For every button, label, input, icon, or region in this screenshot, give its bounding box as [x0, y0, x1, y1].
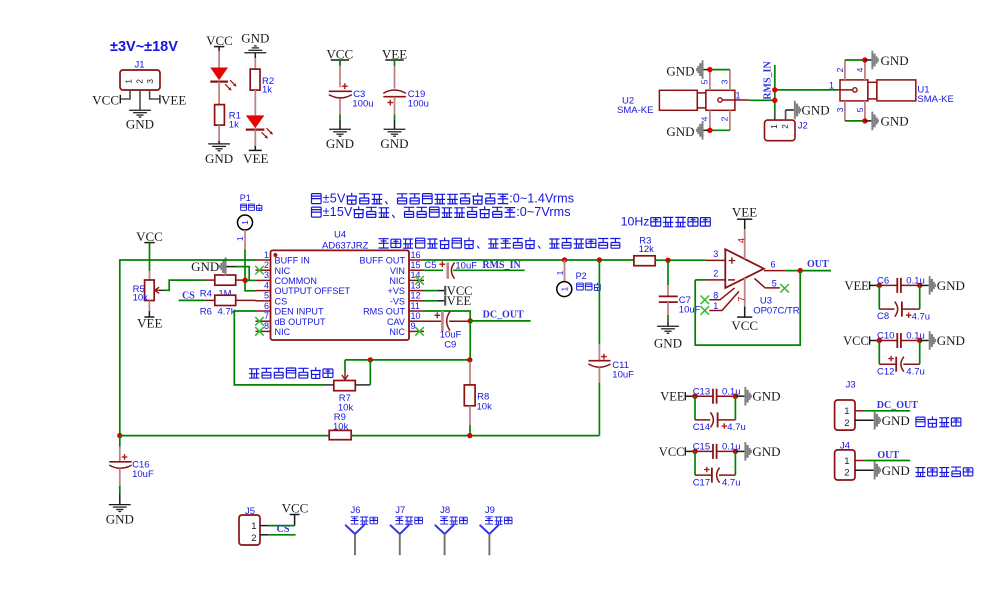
svg-text:4.7u: 4.7u	[722, 477, 741, 488]
U3 pin 5	[755, 279, 780, 289]
label C17 4.7u	[693, 477, 741, 488]
junction U2 top	[707, 67, 712, 72]
svg-text:9: 9	[411, 321, 416, 331]
U4 pin 16 (BUFF OUT)	[360, 250, 424, 266]
svg-text:4.7u: 4.7u	[906, 367, 925, 378]
svg-text:2: 2	[251, 533, 256, 544]
LED D1	[210, 68, 236, 91]
wire output to OUT	[785, 270, 831, 272]
wire C6/C8 right down	[919, 285, 921, 309]
svg-text:NIC: NIC	[389, 327, 405, 337]
svg-text:GND: GND	[937, 278, 965, 293]
svg-text:2: 2	[781, 124, 790, 129]
svg-text:1k: 1k	[229, 119, 239, 130]
svg-text:RMS_IN: RMS_IN	[763, 61, 774, 100]
junction rail / R8	[467, 433, 472, 438]
svg-text:SMA-KE: SMA-KE	[917, 94, 953, 105]
wire U1 bottom pins	[845, 120, 865, 122]
wire VCC to R5	[149, 243, 151, 280]
junction RMS_IN / U1	[772, 87, 777, 92]
wire J4 pin1 OUT	[855, 460, 910, 462]
wire pin12 to VEE	[424, 300, 445, 302]
svg-text:GND: GND	[241, 31, 269, 46]
power port VEE (C13/C14)	[660, 390, 685, 404]
svg-text:C9: C9	[444, 339, 456, 350]
U4 pin 4 (OUTPUT OFFSET)	[256, 280, 351, 296]
wire pin6 to R7	[234, 311, 323, 385]
label C13 0.1u	[693, 386, 741, 397]
capacitor C11	[589, 361, 611, 368]
U4 pin 13 (+VS)	[388, 280, 424, 296]
net label DC_OUT (U4)	[483, 310, 524, 321]
svg-text:2: 2	[720, 116, 730, 121]
wire C3 to GND	[339, 99, 341, 130]
label J2	[798, 120, 808, 131]
wire C11 top	[598, 260, 600, 361]
junction C6/C8 right	[917, 283, 922, 288]
svg-text:10k: 10k	[333, 421, 349, 432]
svg-text:VEE: VEE	[660, 390, 685, 404]
wire pin10 to C9	[424, 320, 441, 322]
label C6 0.1u	[877, 276, 925, 287]
U4 pin 6 (DEN INPUT)	[256, 301, 324, 317]
svg-text:C13: C13	[693, 386, 710, 397]
power port VCC (U4)	[445, 284, 472, 298]
svg-text:CS: CS	[275, 296, 288, 306]
svg-text:3: 3	[264, 270, 269, 280]
annotation filtered out	[916, 467, 973, 477]
svg-text:OUT: OUT	[877, 450, 899, 461]
junction U1 top	[862, 57, 867, 62]
wire J5 pin2 CS	[260, 534, 296, 536]
wire LED1 to R1	[218, 82, 220, 105]
junction RMS_IN / U2	[772, 98, 777, 103]
power port VCC (C3)	[326, 46, 353, 61]
potentiometer R5	[145, 280, 161, 301]
capacitor C19	[383, 90, 406, 97]
no-connect X pin2	[255, 266, 264, 275]
svg-text:VCC: VCC	[282, 501, 309, 516]
wire pin13 to VCC	[424, 290, 445, 292]
junction C6/C8 left	[877, 283, 882, 288]
svg-text:1: 1	[240, 220, 250, 225]
svg-text:R6: R6	[200, 306, 212, 317]
svg-text:1: 1	[844, 406, 849, 417]
svg-text:4.7u: 4.7u	[727, 422, 746, 433]
svg-text:GND: GND	[205, 151, 233, 166]
svg-text:1: 1	[713, 301, 718, 311]
connector J3	[835, 400, 855, 430]
wire J1 pin3 to VEE	[150, 90, 160, 99]
svg-text:C14: C14	[693, 422, 710, 433]
capacitor C16 plus	[122, 454, 128, 460]
net label RMS_IN (SMA)	[763, 61, 774, 100]
U3 pin 2	[706, 268, 726, 280]
ground (U2 bottom)	[666, 121, 708, 140]
pin 2 of U1	[835, 60, 845, 80]
capacitor C10	[879, 333, 919, 348]
capacitor C16	[109, 462, 131, 469]
net RMS_IN vertical wire	[774, 65, 776, 110]
svg-text:GND: GND	[654, 335, 682, 350]
wire J4 pin2 gnd	[855, 469, 874, 471]
ground (R2 top)	[241, 31, 269, 59]
potentiometer R7	[324, 372, 371, 391]
U3 pin 1	[709, 291, 739, 311]
svg-text:VEE: VEE	[137, 316, 162, 331]
label C15 0.1u	[693, 442, 741, 453]
connector J1 label	[135, 60, 145, 71]
svg-text:J7: J7	[395, 505, 405, 516]
pin 1 of J2	[770, 124, 779, 129]
svg-text:6: 6	[264, 301, 269, 311]
net label CS (J5)	[277, 524, 290, 535]
power port VEE (J1)	[160, 93, 186, 108]
power port VEE (U4)	[445, 294, 471, 308]
power port VEE (LED2)	[243, 150, 268, 165]
svg-text:1: 1	[829, 81, 834, 91]
svg-text:P2: P2	[576, 271, 587, 281]
svg-text:1: 1	[251, 521, 256, 532]
wire U1 top pins	[845, 59, 865, 61]
label C8 4.7u	[877, 311, 930, 322]
svg-text:J8: J8	[440, 505, 450, 516]
svg-text:1: 1	[235, 236, 245, 241]
svg-text:RMS OUT: RMS OUT	[363, 307, 405, 317]
label U3	[760, 296, 772, 307]
pin 1 of U1	[829, 81, 857, 93]
wire C16 top	[119, 436, 121, 462]
wire C7 to GND	[667, 302, 669, 326]
svg-text:C8: C8	[877, 311, 889, 322]
ground (J4)	[874, 461, 910, 480]
label J9	[485, 505, 495, 516]
svg-text:VEE: VEE	[161, 93, 186, 108]
net label DC_OUT (J3)	[877, 400, 918, 411]
svg-text:10uF: 10uF	[612, 369, 634, 380]
svg-text:6: 6	[771, 259, 776, 269]
wire BUFF OUT	[424, 259, 634, 261]
svg-text:4.7u: 4.7u	[912, 311, 931, 322]
pin 2 of J1	[135, 79, 144, 84]
wire C10/C12 left down	[878, 341, 880, 365]
wire R7 right up	[369, 360, 371, 385]
LED D2	[246, 115, 273, 138]
wire R8 top lead	[469, 360, 471, 385]
svg-text:VCC: VCC	[326, 46, 353, 61]
pin 2 of J5	[251, 533, 256, 544]
svg-text:8: 8	[713, 290, 718, 300]
power port VCC (J1)	[92, 93, 120, 108]
test point P1	[238, 215, 253, 230]
ground (C15/C17)	[735, 442, 780, 461]
ground (C10/C12)	[920, 331, 965, 350]
svg-text:J3: J3	[846, 380, 856, 391]
svg-text:1: 1	[736, 91, 741, 101]
net label CS (R6)	[182, 290, 195, 301]
wire DC_OUT	[470, 320, 531, 322]
junction C7	[665, 258, 670, 263]
svg-text:GND: GND	[752, 444, 780, 459]
svg-text:10Hz: 10Hz	[621, 215, 650, 229]
capacitor C7	[659, 296, 678, 302]
svg-text:VEE: VEE	[844, 279, 869, 293]
svg-text:2: 2	[844, 418, 849, 429]
svg-text:J2: J2	[798, 120, 808, 131]
svg-text:2: 2	[844, 468, 849, 479]
svg-text:AD637JRZ: AD637JRZ	[322, 241, 369, 252]
wire C19 to GND	[394, 97, 396, 129]
wire J3 pin2 gnd	[855, 419, 874, 421]
test point P2	[557, 282, 572, 297]
label OP07C/TR	[753, 306, 800, 317]
label P2 cjk	[577, 283, 601, 291]
wire VEE to C19	[394, 60, 396, 89]
svg-text:1: 1	[844, 456, 849, 467]
net label RMS_IN (C5)	[482, 260, 521, 271]
svg-text:1: 1	[770, 124, 779, 129]
svg-text:OUTPUT OFFSET: OUTPUT OFFSET	[275, 286, 351, 296]
wire R7 top	[345, 359, 470, 361]
ground (C16)	[106, 505, 134, 527]
junction C13/C14 left	[692, 394, 697, 399]
svg-text:VCC: VCC	[731, 318, 758, 333]
svg-text:12k: 12k	[639, 244, 655, 255]
power port VEE (C6/C8)	[844, 279, 869, 293]
wire GND to pin3	[227, 267, 250, 281]
label C5	[424, 260, 436, 271]
svg-text:GND: GND	[666, 124, 694, 139]
label C5 10uF	[455, 261, 477, 272]
wire VCC to C15	[685, 450, 695, 452]
capacitor C11 plus	[601, 354, 607, 360]
label C16 10uF	[132, 460, 154, 480]
no-connect X pin9	[415, 327, 424, 336]
wire J1 pin1 to VCC	[121, 90, 130, 99]
power port VCC (LED1)	[206, 33, 233, 48]
svg-text::0~1.4Vrms: :0~1.4Vrms	[509, 192, 574, 206]
wire R1 to GND	[218, 125, 220, 144]
svg-text:VCC: VCC	[843, 334, 869, 348]
U4 pin 8 (NIC)	[256, 321, 291, 337]
wire BUFF IN bus	[120, 260, 256, 436]
annotation trim pot	[249, 367, 333, 378]
resistor R1	[215, 105, 225, 126]
svg-text:NIC: NIC	[275, 266, 291, 276]
wire R7 wiper up	[344, 360, 346, 372]
label C7 10uF	[679, 295, 701, 315]
wire LED2 to VEE	[254, 130, 256, 151]
U3 pin 4 VEE	[732, 205, 757, 259]
svg-text:2: 2	[835, 67, 845, 72]
feedback wire U3	[695, 271, 800, 346]
junction R7 right	[368, 357, 373, 362]
op-amp U3	[725, 249, 764, 288]
svg-text:C5: C5	[424, 260, 436, 271]
U4 pin 2 (NIC)	[256, 260, 291, 276]
power port VEE (C19)	[382, 46, 407, 61]
wire C11 bottom	[598, 368, 600, 436]
svg-text:10uF: 10uF	[132, 469, 154, 480]
wire pin11 elbow	[424, 311, 470, 321]
capacitor C3 plus	[342, 83, 348, 89]
svg-text:10uF: 10uF	[679, 304, 701, 315]
label C3 100u	[352, 89, 373, 109]
pin 4 of U1	[855, 60, 865, 80]
U4 pin 14 (NIC)	[389, 270, 424, 286]
svg-text:1: 1	[555, 270, 565, 275]
net label OUT (J4)	[877, 450, 899, 461]
svg-text:J9: J9	[485, 505, 495, 516]
pin 1 of J1	[124, 79, 133, 84]
wire P1 lead	[235, 230, 245, 249]
junction R4/P1	[243, 278, 248, 283]
svg-text:CS: CS	[277, 524, 290, 535]
wire VCC to C10	[870, 340, 880, 342]
capacitor C5 plus	[439, 261, 445, 267]
svg-text:2: 2	[135, 79, 144, 84]
label J7 cjk	[395, 517, 422, 525]
resistor R4	[205, 275, 245, 285]
svg-text:GND: GND	[326, 136, 354, 151]
svg-text:100u: 100u	[408, 98, 429, 109]
wire R3 to opamp	[655, 259, 705, 261]
svg-text:2: 2	[713, 268, 718, 278]
no-connect X U3 pin8	[701, 296, 710, 305]
label R8 10k	[477, 392, 493, 413]
capacitor C19 plus	[387, 100, 393, 106]
wire C7 top	[667, 260, 669, 296]
svg-text:GND: GND	[380, 136, 408, 151]
svg-text:3: 3	[835, 107, 845, 112]
label U2 SMA-KE	[617, 96, 653, 117]
svg-text:OUT: OUT	[807, 259, 829, 270]
svg-text:dB OUTPUT: dB OUTPUT	[275, 317, 326, 327]
ground (U2 top)	[666, 60, 708, 79]
ground (J3)	[874, 411, 910, 430]
capacitor C17	[695, 468, 735, 483]
svg-text:7: 7	[264, 311, 269, 321]
pin 3 of U1	[835, 101, 845, 121]
mounting hole J9	[480, 525, 499, 555]
resistor R9	[329, 430, 351, 439]
U4 pin 3 (COMMON)	[256, 270, 317, 286]
svg-text:3: 3	[713, 249, 718, 259]
junction C11	[597, 257, 602, 262]
label R1 1k	[229, 111, 241, 131]
svg-text:5: 5	[855, 107, 865, 112]
pin 1 of J5	[251, 521, 256, 532]
svg-text:C15: C15	[693, 442, 710, 453]
ground (J2)	[794, 101, 830, 120]
capacitor C12	[879, 357, 919, 372]
svg-text:4: 4	[736, 238, 746, 243]
label J4	[840, 441, 850, 452]
svg-text:3: 3	[720, 79, 730, 84]
wire VCC to C3	[339, 60, 341, 87]
wire C10/C12 right down	[919, 341, 921, 365]
svg-text:10k: 10k	[133, 293, 149, 304]
junction DC_OUT	[468, 318, 473, 323]
connector J4	[835, 450, 855, 480]
svg-text:2: 2	[264, 260, 269, 270]
power port VCC (C15/C17)	[659, 445, 686, 459]
label C10 0.1u	[877, 331, 925, 342]
label C12 4.7u	[877, 367, 925, 378]
ground (C7)	[654, 326, 682, 350]
pin 1 of U2	[718, 91, 749, 103]
wire J1 pin2 to GND	[139, 90, 141, 110]
svg-text:VIN: VIN	[390, 266, 405, 276]
power port VCC (R5)	[136, 229, 163, 244]
capacitor C3	[329, 91, 352, 98]
svg-text:P1: P1	[240, 193, 251, 203]
pin 2 of U2	[720, 110, 730, 130]
U3 output pin 6	[764, 259, 785, 270]
resistor R3	[634, 235, 655, 265]
svg-text::0~7Vrms: :0~7Vrms	[516, 205, 570, 219]
label R5 10k	[133, 284, 149, 304]
connector J1	[120, 70, 160, 90]
svg-text:1: 1	[264, 250, 269, 260]
ground (C6/C8)	[920, 276, 965, 295]
U4 pin 5 (CS)	[256, 291, 288, 307]
wire pin2 stub	[695, 279, 705, 281]
connector U1 SMA-KE body	[840, 80, 916, 101]
wire C9 to DC_OUT node	[449, 320, 470, 322]
label R4 1M	[200, 289, 232, 300]
svg-text:16: 16	[411, 250, 421, 260]
svg-text:OP07C/TR: OP07C/TR	[753, 306, 800, 317]
ground (U1 top)	[865, 51, 909, 70]
annotation 10Hz low-pass	[621, 215, 711, 229]
label C11 10uF	[612, 360, 634, 380]
wire junction to pin3	[245, 279, 255, 281]
capacitor C14 plus	[722, 423, 728, 429]
net label OUT	[807, 259, 829, 270]
pin 2 of J4	[844, 468, 849, 479]
connector J5	[239, 515, 260, 545]
wire GND to R2	[254, 58, 256, 69]
svg-text:RMS_IN: RMS_IN	[482, 260, 521, 271]
svg-text:GND: GND	[937, 333, 965, 348]
wire C13/C14 right down	[734, 396, 736, 420]
wire VEE to C13	[685, 395, 695, 397]
wire C15/C17 left down	[694, 451, 696, 475]
svg-text:R4: R4	[200, 289, 212, 300]
wire U2 top pins	[710, 69, 730, 71]
svg-text:DEN INPUT: DEN INPUT	[275, 307, 324, 317]
power port VEE (R5)	[137, 316, 162, 331]
annotation supply 15V	[312, 205, 571, 219]
label C14 4.7u	[693, 422, 746, 433]
svg-text:14: 14	[411, 270, 421, 280]
mounting hole J8	[435, 525, 454, 555]
junction C15/C17 right	[733, 449, 738, 454]
annotation module direct out	[916, 416, 961, 427]
svg-text:GND: GND	[126, 117, 154, 132]
U4 pin 9 (NIC)	[389, 321, 424, 337]
U4 pin 1 (BUFF IN)	[256, 250, 310, 266]
label U1 SMA-KE	[917, 85, 953, 105]
U3 pin 8	[709, 288, 734, 301]
capacitor C5	[448, 263, 455, 279]
svg-text:BUFF IN: BUFF IN	[275, 256, 310, 266]
svg-text:±3V~±18V: ±3V~±18V	[110, 39, 178, 55]
wire C16 bottom	[119, 469, 121, 505]
wire C6/C8 left down	[878, 285, 880, 309]
svg-text:4: 4	[855, 67, 865, 72]
